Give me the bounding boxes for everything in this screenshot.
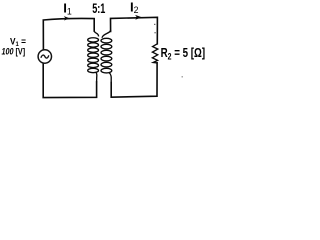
scan tick near right wire [154,24,155,25]
wire: left loop top (source top, top wire, to primary top stem) [43,18,94,50]
svg-text:I2: I2 [130,0,139,15]
svg-text:I1: I1 [63,0,72,16]
transformer primary winding (left coil) [88,31,99,82]
voltage source V1 (AC) [38,50,51,63]
svg-text:R2 = 5 [Ω]: R2 = 5 [Ω] [161,46,206,62]
svg-text:100 [V]: 100 [V] [2,46,26,56]
wire: right loop top (secondary top stem, top wire, down to resistor top) [111,17,158,44]
wire: left loop bottom (primary bottom stem, bottom wire, to source bottom) [43,63,96,97]
svg-text:5:1: 5:1 [92,1,105,16]
transformer secondary winding (right coil) [101,30,112,83]
resistor R2 (zigzag) [152,44,157,63]
wire: right loop bottom (resistor bottom, down, bottom wire, to secondary bottom stem) [111,63,157,97]
current arrow I2 (arrowhead on top-right wire) [135,15,142,20]
scan speck [182,76,183,77]
current arrow I1 (arrowhead on top-left wire) [64,16,70,20]
